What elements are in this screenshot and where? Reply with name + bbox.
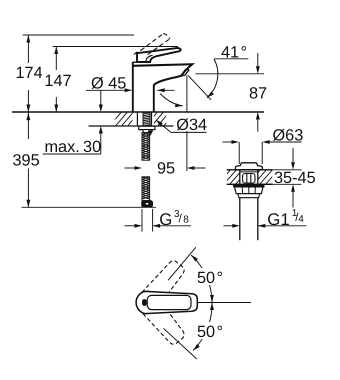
svg-text:G: G — [159, 210, 172, 229]
svg-text:95: 95 — [157, 159, 175, 177]
svg-text:50 °: 50 ° — [197, 269, 223, 287]
svg-text:87: 87 — [249, 85, 267, 103]
svg-text:Ø63: Ø63 — [273, 126, 304, 144]
svg-text:Ø 45: Ø 45 — [91, 74, 126, 92]
svg-text:Ø34: Ø34 — [176, 116, 207, 134]
svg-text:395: 395 — [13, 152, 40, 170]
svg-text:41 °: 41 ° — [221, 43, 247, 61]
svg-text:max. 30: max. 30 — [45, 138, 102, 156]
svg-text:174: 174 — [16, 64, 43, 82]
svg-text:4: 4 — [298, 214, 304, 225]
svg-text:50 °: 50 ° — [197, 323, 223, 341]
svg-text:G1: G1 — [267, 210, 289, 229]
svg-text:35-45: 35-45 — [274, 169, 316, 187]
svg-text:8: 8 — [183, 215, 189, 226]
svg-text:147: 147 — [44, 72, 71, 90]
